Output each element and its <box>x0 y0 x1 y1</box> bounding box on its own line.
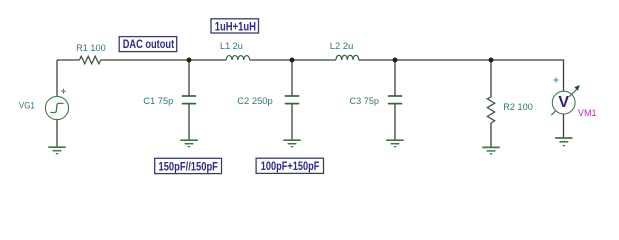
svg-text:1uH+1uH: 1uH+1uH <box>215 19 256 33</box>
svg-text:100pF+150pF: 100pF+150pF <box>261 159 320 173</box>
svg-text:V: V <box>558 94 569 111</box>
svg-text:VG1: VG1 <box>19 100 35 110</box>
svg-text:C2 250p: C2 250p <box>237 96 272 106</box>
svg-text:C1 75p: C1 75p <box>143 96 173 106</box>
svg-text:L1 2u: L1 2u <box>220 41 243 51</box>
svg-text:R2 100: R2 100 <box>503 102 533 112</box>
svg-text:150pF//150pF: 150pF//150pF <box>159 159 218 173</box>
svg-text:C3 75p: C3 75p <box>350 96 380 106</box>
svg-text:DAC outout: DAC outout <box>123 37 175 51</box>
svg-text:R1 100: R1 100 <box>76 43 106 53</box>
svg-text:VM1: VM1 <box>578 108 597 118</box>
svg-text:L2 2u: L2 2u <box>330 41 354 51</box>
